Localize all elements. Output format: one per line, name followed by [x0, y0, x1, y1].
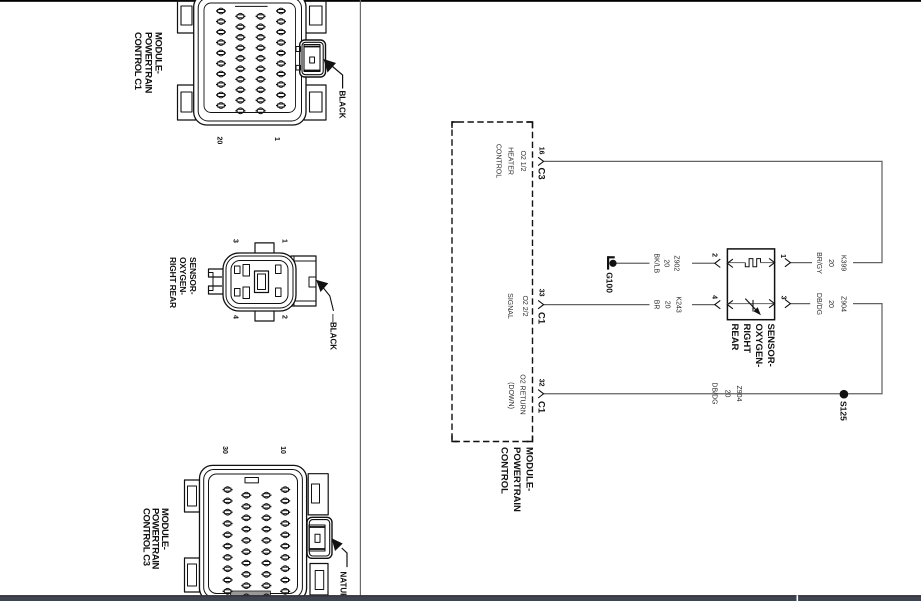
svg-text:S125: S125 — [839, 401, 849, 421]
svg-text:G100: G100 — [604, 272, 614, 293]
wire W1: PCM C3-16 heater control to sensor pin1 (K399) — [544, 161, 882, 262]
divider line between schematic and connector views — [359, 0, 361, 601]
svg-text:OXYGEN-: OXYGEN- — [753, 324, 764, 368]
svg-text:—BLACK: —BLACK — [329, 314, 338, 350]
node C1 pin 32 exit — [538, 390, 544, 398]
svg-text:2: 2 — [711, 253, 718, 257]
sensor chevrons + pin numbers — [785, 258, 791, 266]
connector MODULE-POWERTRAIN CONTROL C1 drawing — [178, 0, 327, 125]
svg-text:1: 1 — [779, 254, 786, 258]
svg-text:BR: BR — [653, 300, 660, 310]
svg-text:SIGNAL: SIGNAL — [506, 293, 513, 319]
svg-text:1: 1 — [281, 239, 288, 243]
svg-text:1: 1 — [273, 137, 280, 141]
svg-text:HEATER: HEATER — [507, 147, 514, 175]
svg-text:REAR: REAR — [729, 324, 740, 351]
svg-text:20: 20 — [663, 259, 670, 267]
connector MODULE-POWERTRAIN CONTROL C3 drawing — [185, 465, 333, 601]
page border (portrait left edge) — [0, 0, 921, 2]
svg-text:4: 4 — [711, 295, 718, 299]
connector C1 pin field — [218, 8, 224, 14]
label BLACK sensor with arrow — [321, 285, 334, 311]
wire W4: PCM C1-33 O2 signal to sensor pin4 (K243) — [544, 304, 650, 306]
svg-text:K243: K243 — [675, 296, 682, 312]
svg-text:(DOWN): (DOWN) — [507, 382, 514, 409]
svg-text:20: 20 — [724, 390, 731, 398]
svg-text:32: 32 — [538, 379, 545, 387]
svg-text:3: 3 — [232, 239, 239, 243]
wire W3: G100 to sensor pin2 (Z902) — [616, 262, 650, 264]
label NATURAL C3 with arrow — [342, 548, 347, 567]
svg-text:2: 2 — [281, 315, 288, 319]
svg-text:K399: K399 — [840, 255, 847, 271]
svg-text:MODULE-: MODULE- — [524, 447, 535, 491]
module PCM dashed box — [452, 122, 533, 442]
splice S125 — [840, 390, 849, 399]
svg-text:O2 1/2: O2 1/2 — [519, 150, 526, 171]
svg-text:10: 10 — [279, 446, 286, 454]
svg-text:Z902: Z902 — [673, 255, 680, 271]
svg-text:O2 2/2: O2 2/2 — [521, 295, 528, 316]
svg-text:BK/LB: BK/LB — [653, 253, 660, 273]
sensor oxygen right rear box U1 — [727, 249, 774, 320]
svg-text:RIGHT: RIGHT — [741, 324, 752, 354]
svg-text:BR/GY: BR/GY — [815, 252, 822, 274]
svg-text:3: 3 — [780, 296, 787, 300]
node C1 pin 33 exit — [538, 300, 544, 308]
svg-text:20: 20 — [827, 300, 834, 308]
connector C3 pin field — [225, 487, 231, 493]
svg-text:SENSOR-: SENSOR- — [765, 324, 776, 367]
svg-text:CONTROL C1: CONTROL C1 — [132, 32, 143, 91]
svg-text:C3: C3 — [535, 168, 546, 180]
svg-text:CONTROL: CONTROL — [499, 447, 510, 494]
node C3 pin 16 exit — [538, 157, 544, 165]
svg-text:BLACK: BLACK — [338, 91, 347, 119]
svg-text:OXYGEN-: OXYGEN- — [178, 257, 188, 295]
heater element inside sensor (pin1-pin2 leg) — [761, 262, 775, 264]
svg-text:33: 33 — [538, 289, 545, 297]
svg-text:CONTROL: CONTROL — [494, 144, 501, 178]
svg-text:DB/DG: DB/DG — [711, 382, 718, 404]
label BLACK C1 with arrow — [329, 64, 343, 89]
svg-text:O2 RETURN: O2 RETURN — [519, 374, 526, 414]
svg-text:16: 16 — [538, 147, 545, 155]
svg-text:C1: C1 — [535, 401, 546, 414]
svg-text:POWERTRAIN: POWERTRAIN — [511, 447, 522, 512]
svg-text:C1: C1 — [535, 312, 546, 325]
svg-text:4: 4 — [232, 315, 239, 319]
svg-text:CONTROL C3: CONTROL C3 — [140, 508, 151, 566]
wire W2: PCM C1-32 O2 return to S125 to sensor pin3 (Z904) — [544, 304, 882, 394]
svg-text:20: 20 — [827, 259, 834, 267]
window edge dark bar (landscape bottom) — [0, 595, 921, 601]
svg-text:20: 20 — [664, 301, 671, 309]
ground G100 — [609, 260, 616, 267]
svg-text:SENSOR-: SENSOR- — [188, 257, 198, 295]
svg-text:20: 20 — [216, 137, 223, 145]
connector SENSOR-OXYGEN RIGHT REAR drawing — [209, 243, 317, 321]
svg-text:30: 30 — [221, 446, 228, 454]
svg-text:RIGHT REAR: RIGHT REAR — [168, 257, 178, 308]
sense element inside sensor (pin3-pin4 leg) — [727, 303, 774, 305]
svg-text:Z904: Z904 — [840, 296, 847, 312]
svg-text:Z904: Z904 — [735, 386, 742, 402]
svg-text:DB/DG: DB/DG — [815, 293, 822, 315]
